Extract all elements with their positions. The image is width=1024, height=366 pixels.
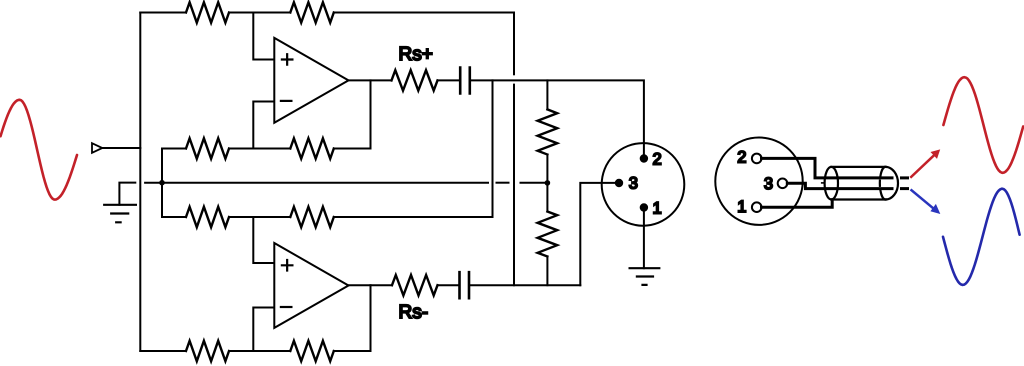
wire common net long segment — [162, 182, 488, 184]
resistor R8 — [290, 341, 334, 361]
svg-text:Rs+: Rs+ — [399, 44, 433, 65]
wire vertical crossover column upper segment — [513, 13, 515, 75]
hot output sine wave (red) — [943, 77, 1023, 173]
node A junction dot — [159, 180, 165, 186]
resistor R6 — [290, 207, 334, 227]
ground stub at input — [119, 183, 135, 205]
resistor R2 — [290, 2, 334, 22]
wire Rs+ to C1 — [438, 79, 460, 81]
cable axis dash — [822, 182, 824, 184]
wire C2 to pin3 riser (cold output line) — [469, 284, 580, 286]
capacitor C1 — [460, 68, 470, 94]
resistor Rdiv1 (vertical) — [546, 80, 548, 109]
cable plug P1 barrel — [825, 167, 898, 200]
wire R5 to R6 — [229, 216, 290, 218]
wire row3 right end to bootstrap column — [334, 216, 493, 218]
wire common net to divider midpoint — [521, 182, 548, 184]
wire U1 noninverting input — [253, 13, 274, 60]
wire vertical crossover column lower segment — [513, 85, 515, 286]
wire common net segment bus to node A — [145, 182, 162, 184]
resistor R3 — [186, 138, 229, 158]
input arrow symbol — [92, 143, 102, 153]
wire pin3 riser — [580, 183, 615, 285]
capacitor C2 — [460, 272, 470, 298]
wire top feedback row left — [140, 12, 186, 14]
hot conductor continuation stub — [902, 176, 908, 179]
wire row4 right to U2 feedback column — [334, 350, 371, 352]
resistor Rdiv2 (vertical) — [546, 183, 548, 212]
wire common net dash between columns — [497, 182, 509, 184]
wire input bus vertical — [139, 13, 141, 352]
resistor R4 — [290, 138, 334, 158]
wire node A vertical — [161, 149, 163, 218]
arrow to hot output wave (red) — [911, 149, 940, 177]
wire J2 pin3 to cable cold conductor — [787, 183, 892, 188]
wire top row right to crossover column — [334, 12, 514, 14]
cold output sine wave (blue, inverted) — [943, 189, 1020, 285]
J1 pin 3 — [615, 179, 623, 187]
U1 plus label — [282, 54, 293, 64]
wire positive bootstrap column — [492, 80, 494, 217]
wire U2 feedback column — [370, 285, 372, 351]
U2 plus label — [282, 260, 293, 271]
svg-text:3: 3 — [629, 175, 638, 193]
J1 pin 1 — [640, 203, 648, 211]
resistor Rs- — [392, 275, 438, 295]
wire bottom feedback row left — [140, 350, 186, 352]
wire U2 output to Rs- — [349, 284, 393, 286]
resistor R1 — [186, 2, 229, 22]
svg-text:2: 2 — [737, 149, 746, 167]
wire input arrow to bus — [102, 147, 140, 149]
wire U2 noninverting input — [253, 217, 274, 263]
wire row2 left riser from node A — [162, 148, 186, 150]
wire U1 inverting input — [253, 102, 274, 149]
resistor R7 — [186, 341, 229, 361]
svg-text:2: 2 — [653, 150, 662, 168]
wire node R1 to R2 — [229, 12, 290, 14]
svg-text:1: 1 — [653, 199, 662, 217]
wire R3 to R4 — [229, 148, 290, 150]
XLR female connector J2 circle — [715, 138, 802, 225]
wire Rs- to C2 — [438, 284, 460, 286]
svg-text:3: 3 — [764, 175, 773, 193]
wire R7 to R8 — [229, 350, 290, 352]
resistor R5 — [186, 207, 229, 227]
wire R4 to feedback column — [334, 148, 371, 150]
U1 minus label — [281, 100, 292, 102]
ground symbol at J1 — [630, 268, 660, 285]
wire J1 pin1 to ground — [643, 208, 645, 269]
XLR male connector J1 circle — [602, 143, 685, 226]
arrow to cold output wave (blue) — [912, 190, 941, 214]
wire row3 left riser — [162, 216, 186, 218]
svg-text:1: 1 — [737, 198, 746, 216]
wire J2 pin2 to cable hot conductor — [762, 158, 893, 178]
wire U1 output to Rs+ — [349, 79, 392, 81]
cold conductor continuation stub — [902, 187, 908, 190]
ground symbol at input — [104, 205, 136, 223]
svg-text:Rs-: Rs- — [399, 302, 429, 323]
op-amp U1 — [274, 38, 348, 123]
node divider midpoint dot — [545, 180, 551, 186]
U2 minus label — [281, 306, 292, 308]
wire J2 pin1 to cable shield — [762, 200, 833, 207]
wire C1 to XLR pin2 (hot output line) — [470, 80, 644, 158]
op-amp U2 — [274, 243, 348, 328]
J1 pin 2 — [640, 154, 648, 162]
wire U1 feedback column — [370, 80, 372, 148]
resistor Rs+ — [392, 70, 438, 90]
wire U2 inverting input — [253, 308, 274, 352]
input sine wave (red) — [1, 100, 78, 200]
